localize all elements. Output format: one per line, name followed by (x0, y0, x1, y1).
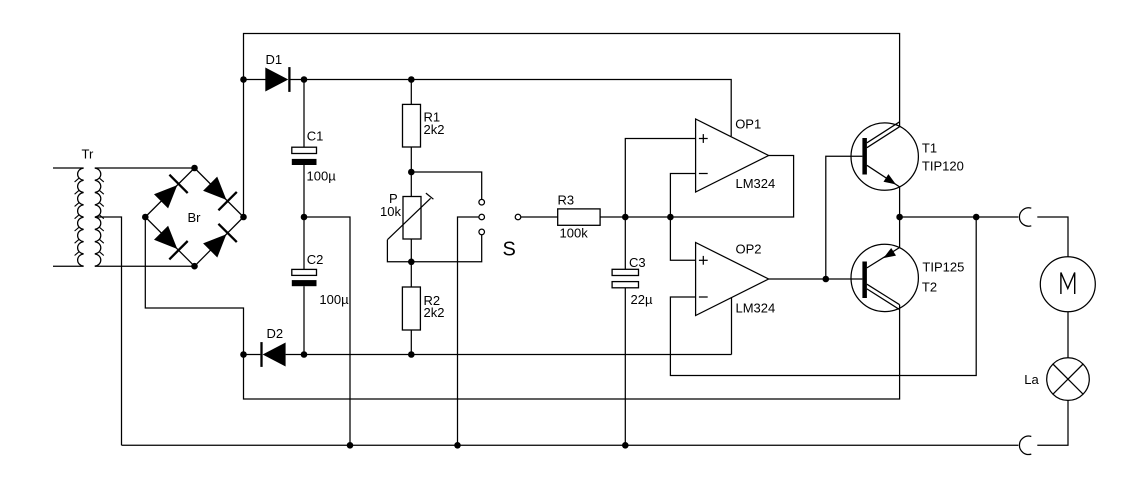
wire OP1 + input (625, 139, 695, 218)
resistor R2 value (424, 305, 445, 320)
capacitor C2 (292, 269, 317, 286)
wire motor to lamp (1067, 312, 1069, 358)
node bridge left vertex (142, 214, 149, 221)
wire center tap to 0V rail (96, 217, 122, 445)
wire secondary top lead (95, 167, 195, 169)
node base drive junction (823, 276, 830, 283)
node R3/C3/OP1+ junction (622, 214, 629, 221)
wire T1 base (826, 156, 863, 279)
lamp La (1047, 358, 1090, 401)
wire R1/P node to switch top throw (411, 172, 481, 199)
wire switch middle throw to 0V rail (458, 217, 479, 445)
resistor R2 label (424, 293, 441, 308)
node bridge right vertex (240, 214, 247, 221)
wire lamp to bottom connector (1037, 400, 1068, 445)
wire OP2 - input feedback from output node (670, 217, 976, 376)
node bridge top vertex (191, 165, 198, 172)
wire primary bottom lead (53, 265, 84, 267)
op-amp OP2 (696, 243, 769, 316)
wire C3 bottom to 0V rail (624, 288, 626, 446)
wire P wiper to lower node (387, 235, 481, 262)
wire switch pole to R3 (521, 216, 558, 218)
wire +V rail with OP1 V+ pin (291, 80, 732, 137)
node C2 bottom (301, 351, 308, 358)
resistor R1 value (424, 122, 445, 137)
diode D1 (265, 67, 289, 92)
wire C1 top (303, 80, 305, 148)
resistor R1 (403, 104, 421, 147)
capacitor C1 (292, 147, 317, 165)
wire D1 anode (244, 79, 266, 81)
node OP1-/OP2+ junction (667, 214, 674, 221)
node C1/C2 midpoint (301, 214, 308, 221)
transformer Tr label (82, 147, 94, 162)
resistor R3 label (558, 193, 575, 208)
capacitor C1 value (307, 169, 337, 184)
svg-text:C2: C2 (307, 252, 324, 267)
svg-text:100µ: 100µ (319, 292, 349, 307)
svg-text:100k: 100k (560, 226, 589, 241)
capacitor C3 label (629, 255, 646, 270)
transistor T1 part number (922, 159, 964, 174)
svg-text:10k: 10k (380, 204, 401, 219)
svg-text:T1: T1 (922, 141, 937, 156)
wire R2 bottom (410, 330, 412, 355)
node 0V / C1C2 midpoint branch (347, 442, 354, 449)
diode D2 label (267, 326, 284, 341)
transformer Tr secondary winding (95, 168, 104, 266)
switch S top throw contact (479, 199, 485, 205)
svg-text:Tr: Tr (82, 147, 94, 162)
bridge diode bottom-right (195, 217, 244, 266)
op-amp OP1 (696, 119, 769, 192)
diode D2 (262, 342, 286, 367)
transistor T2 label (922, 280, 937, 295)
bridge diode top-right (195, 168, 244, 217)
wire output node to connector (900, 216, 1019, 218)
transistor T2 part number (922, 260, 964, 275)
svg-text:D1: D1 (266, 52, 283, 67)
svg-text:R3: R3 (558, 193, 575, 208)
wire OP2 output to bases (769, 278, 863, 280)
svg-text:2k2: 2k2 (424, 305, 445, 320)
svg-text:OP1: OP1 (735, 117, 761, 132)
bridge diode left-top (145, 168, 194, 217)
capacitor C2 label (307, 252, 324, 267)
wire primary top lead (53, 167, 84, 169)
wire P bottom to R2 top (410, 239, 412, 287)
wire OP2 + input (670, 217, 695, 260)
resistor R3 (558, 209, 600, 225)
node emitters junction (896, 214, 903, 221)
wire C1 bottom to midpoint node (303, 165, 305, 217)
wire D2 cathode (244, 354, 261, 356)
potentiometer P (387, 193, 433, 240)
wire midpoint to 0V rail (304, 217, 350, 445)
svg-text:T2: T2 (922, 280, 937, 295)
node R2 bottom (408, 351, 415, 358)
svg-text:2k2: 2k2 (424, 122, 445, 137)
wire OP1 - input (670, 174, 695, 218)
wire T1 emitter to output node (899, 187, 901, 217)
bridge rectifier Br label (188, 210, 202, 225)
node R1 top (408, 76, 415, 83)
svg-text:TIP120: TIP120 (922, 159, 964, 174)
transistor T1 (851, 122, 918, 191)
node 0V / C3 branch (622, 442, 629, 449)
motor M (1040, 257, 1095, 312)
capacitor C1 label (307, 128, 324, 143)
connector output - (1019, 436, 1031, 454)
op-amp OP1 label (735, 117, 761, 132)
transistor T2 (851, 244, 918, 311)
capacitor C2 value (319, 292, 349, 307)
node bridge bottom vertex (191, 263, 198, 270)
svg-text:100µ: 100µ (307, 169, 337, 184)
op-amp OP2 label (736, 242, 762, 257)
resistor R1 label (424, 110, 441, 125)
wire C3 top (624, 217, 626, 269)
transformer Tr primary winding (75, 168, 84, 266)
wire unregulated + rail (bridge+ to T1 collector) (244, 34, 900, 218)
node output/feedback junction (973, 214, 980, 221)
wire R1 top (410, 80, 412, 105)
potentiometer P value (380, 204, 401, 219)
wire -V rail with OP2 V- connection (286, 354, 732, 356)
wire R3 to OP1 output feedback (600, 156, 794, 218)
switch S middle throw contact (479, 214, 485, 220)
node R1/P junction (408, 169, 415, 176)
wire connector to motor (1037, 217, 1068, 257)
potentiometer P label (389, 191, 398, 206)
svg-text:OP2: OP2 (736, 242, 762, 257)
capacitor C3 value (631, 292, 653, 307)
svg-text:D2: D2 (267, 326, 284, 341)
wire C2 bottom (303, 286, 305, 354)
node 0V / switch branch (454, 442, 461, 449)
switch S bottom throw contact (479, 229, 485, 235)
transistor T1 label (922, 141, 937, 156)
switch S pole contact (515, 214, 521, 220)
svg-text:C3: C3 (629, 255, 646, 270)
wire bridge- to D2 and T2 collector (145, 217, 899, 399)
node D1 anode (240, 76, 247, 83)
wire OP2 V- pin (731, 298, 733, 355)
svg-text:Br: Br (188, 210, 202, 225)
svg-text:LM324: LM324 (736, 301, 776, 316)
capacitor C3 (612, 269, 638, 288)
node D1 cathode / C1 top (301, 76, 308, 83)
wire R1 bottom to P top (410, 147, 412, 197)
svg-text:22µ: 22µ (631, 292, 653, 307)
svg-text:La: La (1024, 372, 1039, 387)
svg-text:LM324: LM324 (736, 176, 776, 191)
node D2 cathode / bridge- (240, 351, 247, 358)
switch S label (503, 239, 516, 261)
op-amp OP1 part number (736, 176, 776, 191)
wire T2 emitter to output node (899, 217, 901, 248)
resistor R3 value (560, 226, 589, 241)
diode D1 label (266, 52, 283, 67)
op-amp OP2 part number (736, 301, 776, 316)
wire secondary bottom lead (95, 265, 195, 267)
svg-text:TIP125: TIP125 (922, 260, 964, 275)
svg-text:C1: C1 (307, 128, 324, 143)
svg-text:S: S (503, 239, 516, 261)
node P bottom / R2 top (408, 259, 415, 266)
wire 0V bottom rail (122, 444, 1019, 446)
resistor R2 (402, 287, 420, 330)
wire C2 top (303, 217, 305, 269)
connector output + (1019, 208, 1031, 226)
lamp La label (1024, 372, 1039, 387)
bridge diode left-bottom (145, 217, 194, 266)
